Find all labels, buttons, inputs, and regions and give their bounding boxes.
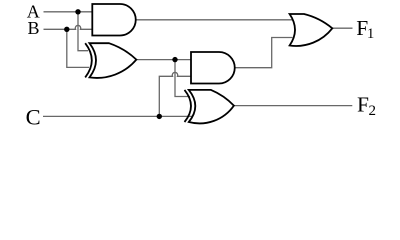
svg-text:F2: F2 — [357, 92, 376, 118]
svg-text:C: C — [26, 105, 41, 130]
svg-text:F1: F1 — [356, 16, 374, 42]
svg-text:B: B — [28, 18, 40, 38]
